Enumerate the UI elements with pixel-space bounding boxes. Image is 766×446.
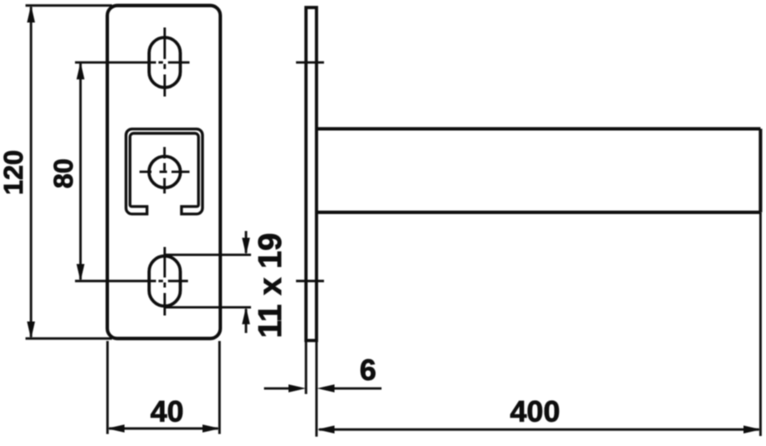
- svg-text:11 x 19: 11 x 19: [252, 233, 288, 338]
- svg-text:400: 400: [510, 396, 560, 429]
- svg-text:80: 80: [49, 158, 79, 188]
- svg-text:40: 40: [150, 396, 183, 429]
- svg-text:6: 6: [360, 354, 377, 387]
- svg-text:120: 120: [0, 150, 29, 195]
